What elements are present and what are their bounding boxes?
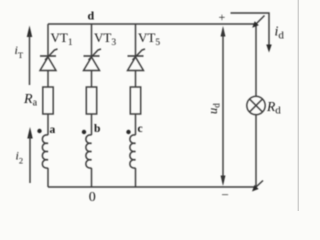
svg-text:Ra: Ra bbox=[23, 92, 38, 109]
node arrow bottom right bbox=[256, 181, 263, 188]
svg-text:VT5: VT5 bbox=[138, 30, 160, 48]
svg-text:iT: iT bbox=[15, 43, 24, 60]
wire branch b upper bbox=[91, 24, 93, 56]
phase dot b bbox=[82, 130, 86, 134]
wire right side upper (to lamp) bbox=[255, 24, 257, 97]
phase dot a bbox=[37, 129, 41, 133]
svg-text:0: 0 bbox=[89, 190, 96, 205]
arrowhead ud top (+) bbox=[221, 26, 226, 37]
resistor box branch c bbox=[130, 87, 140, 114]
svg-text:c: c bbox=[138, 123, 143, 135]
wire right side lower (lamp to bus) bbox=[255, 115, 257, 187]
svg-text:a: a bbox=[50, 124, 56, 136]
arrowhead node top right bbox=[252, 21, 259, 28]
resistor box branch b bbox=[86, 87, 96, 114]
wire VT3 to Ra bbox=[91, 71, 93, 88]
arrowhead ud bottom (-) bbox=[221, 176, 226, 187]
wire winding c to bus 0 bbox=[135, 168, 137, 187]
svg-text:+: + bbox=[219, 10, 226, 24]
wire to winding b bbox=[91, 114, 93, 135]
wire winding a to bus 0 bbox=[47, 168, 49, 187]
resistor Ra box branch a bbox=[43, 87, 53, 114]
current pickoff id wire bbox=[231, 13, 270, 46]
wire Ra to winding a bbox=[47, 114, 49, 135]
wire branch a upper bbox=[47, 24, 49, 56]
svg-text:b: b bbox=[94, 123, 100, 135]
wire VT1 to Ra bbox=[47, 71, 49, 88]
scan artifact right edge bbox=[298, 0, 299, 211]
thyristor VT5 bbox=[128, 49, 146, 71]
wire bottom bus (node 0) bbox=[48, 186, 256, 188]
arrowhead iT bbox=[27, 26, 32, 38]
svg-text:−: − bbox=[222, 187, 229, 202]
wire VT5 to Ra bbox=[135, 71, 137, 88]
wire top bus (node d) bbox=[48, 23, 256, 25]
wire to winding c bbox=[135, 114, 137, 135]
lamp load Rd bbox=[247, 96, 265, 114]
current arrow iT shaft bbox=[29, 34, 31, 85]
current arrow i2 shaft bbox=[29, 136, 31, 183]
svg-text:Rd: Rd bbox=[266, 99, 281, 117]
thyristor VT1 bbox=[40, 49, 58, 71]
wire winding b to bus 0 bbox=[91, 168, 93, 187]
winding (inductor) phase a bbox=[42, 135, 48, 168]
wire branch c upper bbox=[135, 24, 137, 56]
svg-text:d: d bbox=[88, 9, 95, 23]
svg-text:VT3: VT3 bbox=[94, 30, 116, 48]
thyristor VT3 bbox=[84, 49, 102, 71]
winding (inductor) phase b bbox=[86, 135, 92, 168]
phase dot c bbox=[126, 130, 130, 134]
voltage arrow ud shaft bbox=[222, 30, 224, 180]
winding (inductor) phase c bbox=[130, 135, 136, 168]
svg-text:id: id bbox=[275, 25, 285, 42]
svg-text:ud: ud bbox=[206, 103, 222, 114]
arrowhead node bottom right bbox=[252, 185, 259, 192]
svg-text:i2: i2 bbox=[16, 149, 24, 166]
node arrow top right bbox=[256, 16, 265, 25]
svg-text:VT1: VT1 bbox=[51, 30, 73, 48]
arrowhead i2 bbox=[27, 127, 32, 139]
arrowhead id down bbox=[266, 45, 271, 53]
